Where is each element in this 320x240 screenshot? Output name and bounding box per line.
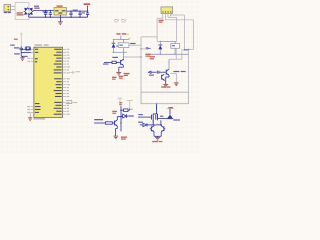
power port pale T2 — [127, 101, 133, 109]
diode input glyph left — [140, 123, 162, 126]
ground below U1 — [58, 22, 63, 25]
wire reset node to pin — [21, 48, 31, 50]
capacitor C5 at VCC — [86, 6, 89, 18]
transistor Q5 — [152, 114, 157, 123]
wire pair down-links — [151, 120, 161, 126]
label near D5 (red) — [112, 111, 117, 114]
power port VCC above LED (pale with red) — [166, 107, 174, 115]
capacitor C6 reset — [20, 48, 31, 52]
wire J1 pin stubs — [11, 6, 16, 9]
ground right of Q3 — [174, 83, 179, 86]
wire right output bus — [188, 49, 190, 93]
transistor Q4 — [162, 74, 165, 80]
wire K1 contact to switch net — [129, 38, 142, 46]
wire relay K1 bottom — [112, 39, 127, 53]
relay K2 coil — [171, 42, 180, 55]
wire relay contact bus vertical — [140, 37, 157, 92]
label R5 — [130, 109, 133, 110]
wire Q1 emitter to ground — [119, 65, 124, 72]
transistor Q6 — [156, 103, 161, 120]
wire loop tap down — [156, 103, 158, 110]
wire bridge output rail — [33, 10, 54, 12]
wire U2 right pins loop — [66, 100, 77, 103]
resistor R5 side — [121, 109, 130, 112]
ground under Q9 — [113, 136, 118, 139]
capacitor C4 — [78, 11, 81, 17]
wire bridge negative to bottom rail — [28, 15, 30, 18]
label POWER under J1 — [4, 12, 11, 13]
relay K1 coil — [116, 40, 129, 53]
U2 left pin-name text — [35, 49, 41, 113]
label near T1 (dark) — [119, 102, 122, 105]
connector J1 (AC power input) — [4, 5, 11, 12]
transistor Q7 — [150, 125, 154, 136]
diode D3 freewheel — [158, 42, 162, 50]
label D1 designator — [34, 6, 48, 13]
wire relay K1 top rail — [114, 39, 129, 41]
wire J2 pin3 route — [168, 16, 176, 41]
crystal Y1 — [25, 47, 31, 51]
connector J2 (outputs) — [161, 7, 173, 14]
U2 right pin stubs and numbers — [63, 49, 67, 114]
connector P1 contact stub — [141, 47, 151, 50]
ground under Q3 — [163, 85, 168, 88]
power port VCC crystal (pale) — [20, 32, 23, 46]
label right of D5 (blue) — [129, 115, 134, 116]
label under ground (red) — [152, 141, 162, 142]
label Q3 value text — [173, 71, 185, 72]
label Q1 designator (red) — [124, 73, 130, 76]
transistor Q9 — [115, 120, 118, 126]
wire J2 pin leads — [163, 14, 171, 17]
wire bottom ground rail — [29, 16, 88, 18]
label P1 (red) — [145, 54, 151, 57]
resistor R6 — [106, 122, 115, 124]
ground under pair — [155, 137, 160, 140]
capacitor C3 — [69, 11, 72, 17]
ground under crystal section — [20, 58, 24, 61]
label IN2 (blue) — [138, 122, 143, 123]
label net at pair (blue) — [160, 116, 163, 117]
label U1 designator (red) — [57, 5, 63, 6]
bridge rectifier value text — [17, 12, 24, 15]
wire relay K2 top rail — [160, 41, 176, 43]
net arrow input Q3 base — [148, 71, 156, 76]
voltage regulator U1 7805 — [54, 8, 66, 15]
LED D4 — [161, 115, 173, 119]
wire loop tap to pair — [156, 104, 158, 114]
label C3 C4 values — [73, 10, 85, 14]
no-connect glyph right of U2 — [69, 71, 80, 74]
resistor R1 at Q1 base — [104, 61, 120, 63]
junction dots input rail — [45, 10, 51, 18]
label AC-OUT above loop (red) — [161, 86, 170, 87]
wire output loop rectangle — [141, 92, 189, 104]
wire relay K2 bottom — [152, 41, 189, 55]
transistor Q3 — [166, 69, 169, 75]
label +12V net (red) — [34, 8, 39, 9]
label input net (blue) — [94, 119, 103, 120]
U2 left pin stubs top — [31, 49, 34, 61]
label U2 designator above — [34, 44, 48, 45]
transistor Q8 — [161, 125, 165, 136]
power port VCC (red) — [84, 3, 91, 5]
wire Q9 emitter to ground — [116, 126, 118, 136]
wire Q9 collector up — [117, 117, 121, 120]
wire regulator output rail — [66, 10, 87, 12]
label R1 value — [103, 57, 118, 65]
bridge rectifier D1 outline — [15, 3, 29, 20]
U2 right pin-name text — [54, 49, 62, 115]
ground below U2 left — [28, 112, 32, 120]
wire K1 coil to Q1 collector — [123, 52, 141, 60]
wire K2 contact U-route — [176, 49, 182, 60]
wire crystal bottom to resistor — [21, 52, 28, 57]
capacitor C1 — [44, 11, 47, 18]
labels crystal caps (blue) — [10, 45, 20, 55]
spare glyphs (grey-red marks) — [114, 20, 126, 23]
bridge rectifier D1 diodes — [24, 8, 34, 16]
microcontroller U2 body — [34, 47, 63, 117]
transistor Q1 — [121, 59, 124, 65]
label under Q9 (red) — [121, 137, 127, 140]
wire emitters join — [154, 136, 161, 137]
label reset net (red) — [14, 39, 18, 40]
labels VCC pair mid (red) — [112, 76, 123, 80]
wire VCC down to reset cap — [20, 46, 22, 48]
capacitor C2 — [49, 11, 52, 18]
diode D5 side glyph — [121, 114, 129, 118]
label J2 designator (red) — [159, 20, 164, 23]
junction dots output rail — [70, 10, 88, 17]
power port VCC relay K1 (red) — [116, 33, 128, 39]
wire J2 pin1 route to relay K2 — [157, 16, 163, 41]
wire Q3 emitter to ground — [166, 75, 169, 84]
wire J2 pin4 route — [171, 15, 189, 50]
label LED D4 — [173, 119, 180, 120]
U2 left pin stubs bottom — [31, 107, 34, 113]
wire input row bottom-middle — [94, 122, 106, 124]
wire Q4 emitter branch — [164, 74, 176, 83]
wire gates feed line — [138, 114, 152, 117]
wire J2 pin2 route down right edge — [165, 16, 193, 49]
wire U1 ground pin — [59, 15, 61, 22]
wire Q3 collector stub — [169, 59, 176, 69]
diode D2 freewheel — [112, 40, 116, 53]
capacitor C7 series — [157, 71, 166, 74]
ground under Q1 — [116, 73, 121, 76]
label K2 net (red) — [150, 56, 155, 59]
wire main vertical bottom-middle — [120, 106, 121, 132]
power port pale T1 — [118, 98, 123, 106]
label part number below U2 — [34, 118, 46, 119]
